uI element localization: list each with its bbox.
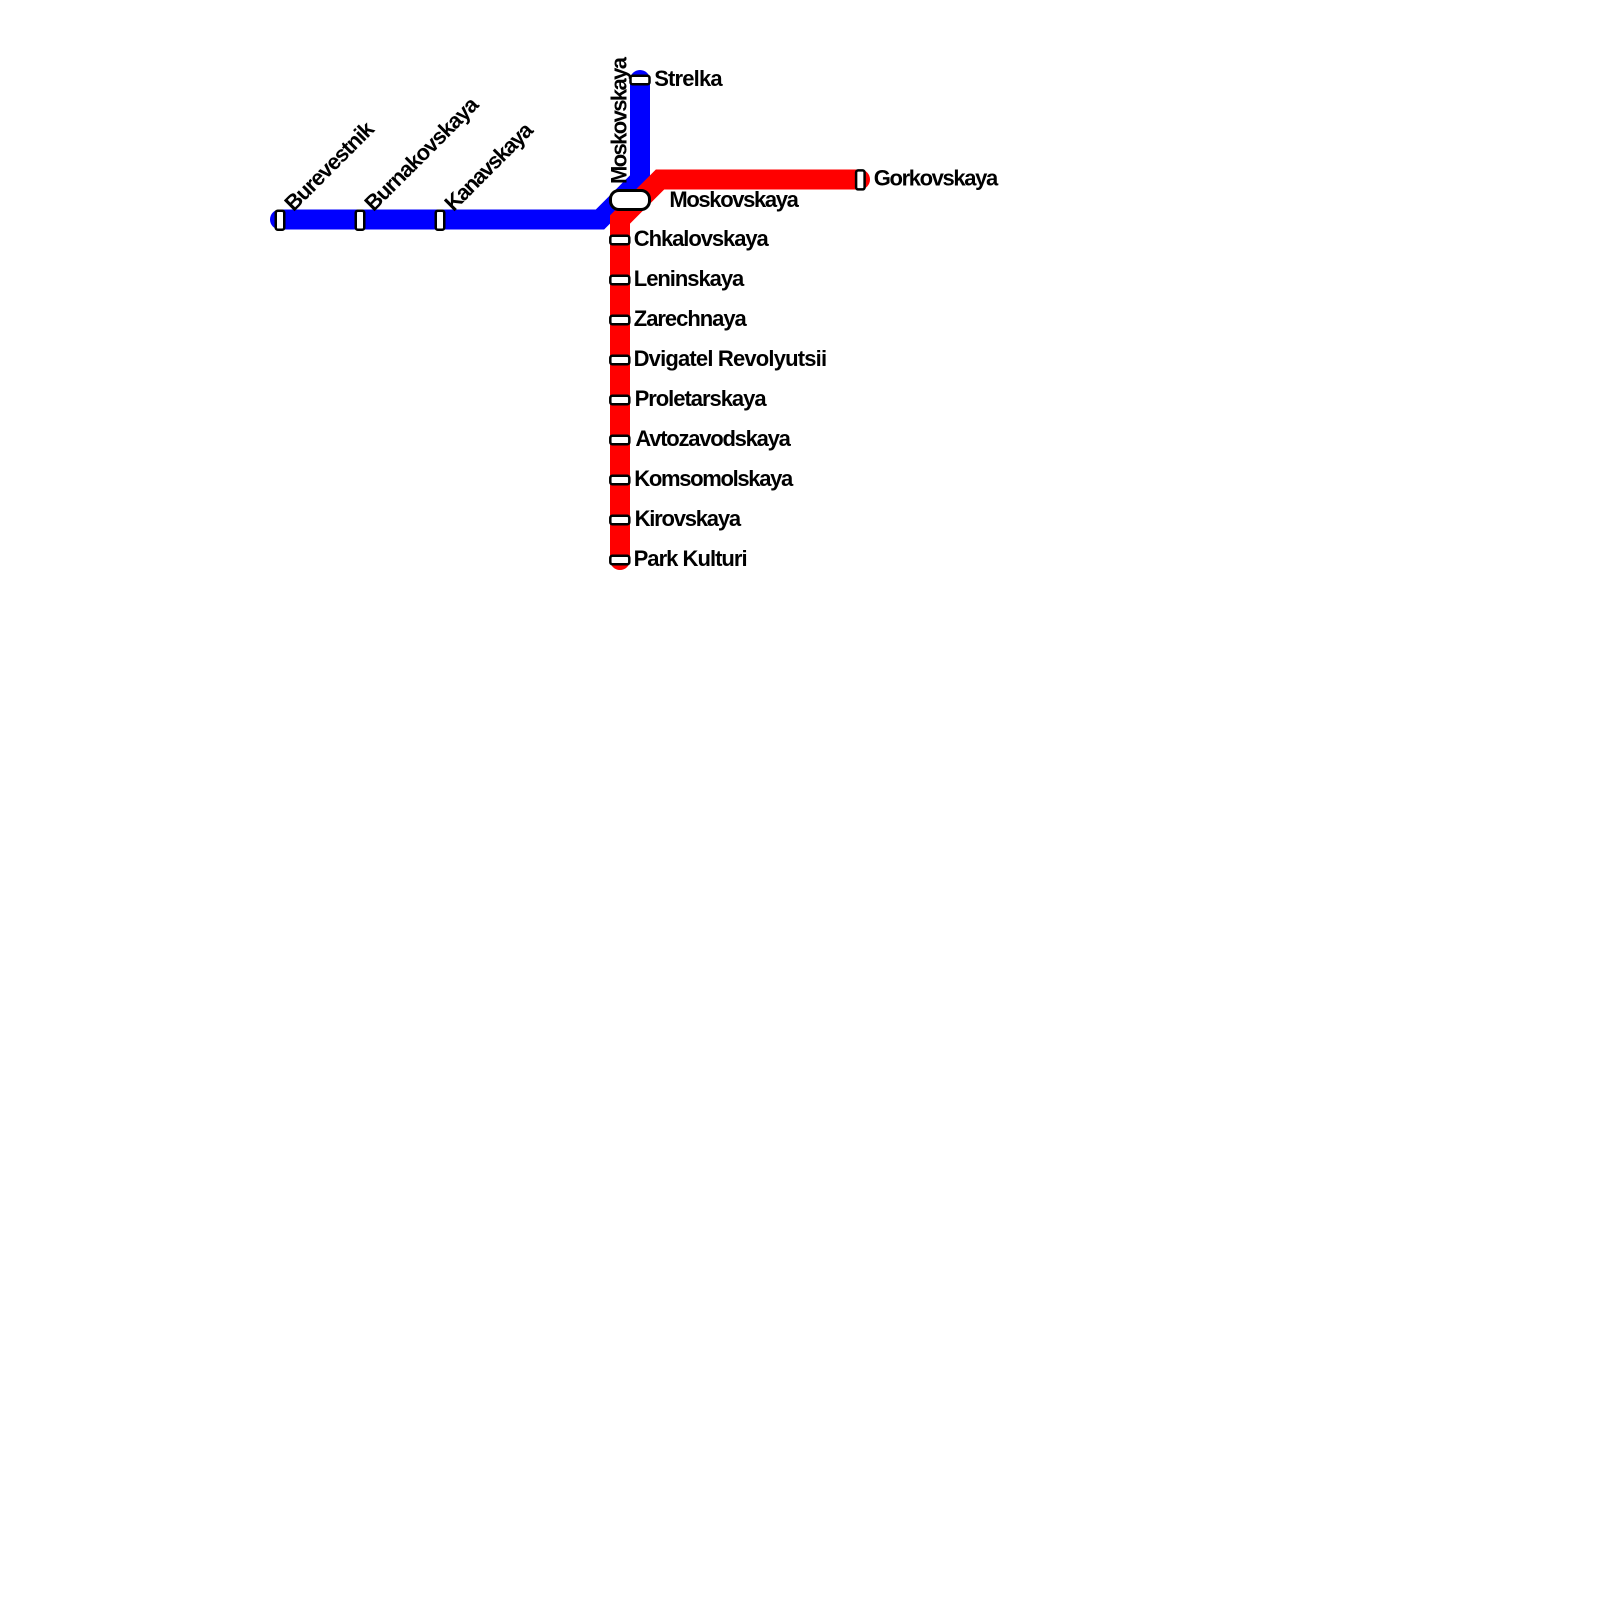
svg-text:Chkalovskaya: Chkalovskaya (634, 226, 770, 251)
svg-text:Gorkovskaya: Gorkovskaya (874, 166, 999, 191)
svg-text:Proletarskaya: Proletarskaya (635, 386, 768, 411)
svg-text:Komsomolskaya: Komsomolskaya (634, 466, 794, 491)
svg-text:Kirovskaya: Kirovskaya (635, 506, 742, 531)
svg-text:Zarechnaya: Zarechnaya (634, 306, 748, 331)
svg-text:Moskovskaya: Moskovskaya (607, 56, 632, 184)
svg-text:Leninskaya: Leninskaya (634, 266, 745, 291)
svg-text:Avtozavodskaya: Avtozavodskaya (635, 426, 791, 451)
svg-text:Park Kulturi: Park Kulturi (634, 546, 748, 571)
svg-text:Strelka: Strelka (654, 66, 723, 91)
svg-text:Moskovskaya: Moskovskaya (669, 187, 799, 212)
svg-text:Dvigatel Revolyutsii: Dvigatel Revolyutsii (634, 346, 828, 371)
